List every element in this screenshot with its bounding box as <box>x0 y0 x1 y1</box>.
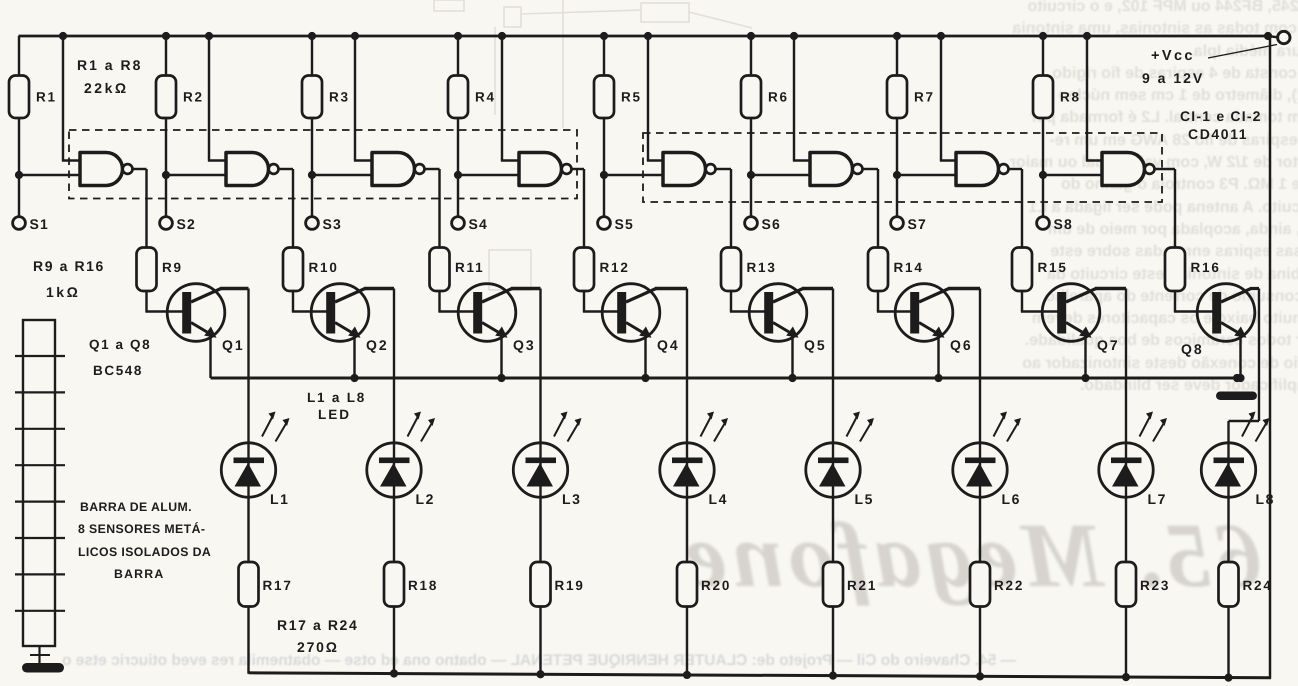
resistor R12 <box>574 248 594 292</box>
junction on top rail (gate 5 input drop) <box>644 32 652 40</box>
junction: Q6 emitter on rail <box>934 374 942 382</box>
transistor Q5 (BC548) <box>749 284 807 342</box>
LED L2 light arrows <box>408 416 419 437</box>
wire: LED L2 to R18 <box>393 497 395 562</box>
emitter of Q1 <box>191 323 207 333</box>
wire: collector to LED L3 <box>539 289 541 444</box>
svg-text:R9 a R16: R9 a R16 <box>33 258 105 274</box>
inverter bubble gate 7 <box>999 164 1009 174</box>
svg-text:CI-1 e CI-2: CI-1 e CI-2 <box>1180 108 1262 124</box>
sensor tick 6 <box>15 537 65 539</box>
collector of Q7 <box>1066 289 1096 303</box>
wire: collector to LED L6 <box>979 289 981 444</box>
junction: Q3 emitter on rail <box>497 374 505 382</box>
svg-text:BARRA DE ALUM.: BARRA DE ALUM. <box>80 500 192 514</box>
wire: R7 to node S7 <box>896 118 898 175</box>
resistor R17 <box>239 562 259 607</box>
wire: R16 to Q8 base <box>1174 291 1176 312</box>
resistor R2 <box>156 76 176 119</box>
wire: collector to LED L2 <box>393 289 395 444</box>
svg-text:S7: S7 <box>908 216 928 232</box>
wire: node to gate 7 input B <box>897 174 959 176</box>
collector of Q4 <box>626 289 656 303</box>
inverter bubble gate 3 <box>415 164 425 174</box>
transistor Q4 (BC548) <box>602 284 660 342</box>
resistor R23 <box>1116 562 1136 607</box>
wire: R2 to node S2 <box>165 118 167 175</box>
svg-text:LICOS ISOLADOS DA: LICOS ISOLADOS DA <box>78 545 211 559</box>
wire: R10 to Q2 base <box>292 291 294 312</box>
resistor R18 <box>384 562 404 607</box>
wire: LED L6 to R22 <box>979 497 981 562</box>
junction on top rail (gate 1 input drop) <box>59 32 67 40</box>
IC outline CI-2 (dashed box, gates 5-8) <box>643 133 1162 202</box>
NAND gate U4 (CD4011) <box>519 153 562 186</box>
wire: rail drop to gate 7 input A <box>940 36 942 161</box>
collector of Q1 <box>191 289 221 303</box>
junction on top rail at R2 <box>162 32 170 40</box>
junction: bottom rail at R19 <box>536 670 544 678</box>
wire: node to gate 6 input B <box>751 174 813 176</box>
wire: node to gate 3 input B <box>312 174 375 176</box>
LED L4 <box>660 443 714 497</box>
wire: collector to LED L1 <box>247 289 249 444</box>
wire: rail to R8 <box>1042 36 1044 76</box>
resistor R13 <box>721 248 741 292</box>
svg-text:L1 a L8: L1 a L8 <box>307 390 366 405</box>
svg-text:R6: R6 <box>768 90 789 105</box>
transistor Q2 (BC548) <box>311 284 369 342</box>
svg-text:S6: S6 <box>762 216 782 232</box>
svg-text:270Ω: 270Ω <box>297 639 339 655</box>
svg-text:L5: L5 <box>855 491 875 507</box>
wire: R22 to bottom rail <box>979 607 981 678</box>
svg-text:R18: R18 <box>408 578 438 593</box>
transistor Q1 (BC548) <box>167 284 225 342</box>
wire: gate 6 output to R14 <box>863 168 879 170</box>
inverter bubble gate 2 <box>269 164 279 174</box>
svg-text:CD4011: CD4011 <box>1188 126 1248 142</box>
wire: R1 to node S1 <box>18 118 20 175</box>
junction on top rail (gate 7 input drop) <box>937 32 945 40</box>
emitter of Q8 <box>1221 323 1237 333</box>
wire: rail to R2 <box>165 36 167 76</box>
inverter bubble gate 8 <box>1145 164 1155 174</box>
wire: LED L4 to R20 <box>686 497 688 562</box>
LED L2 <box>367 443 421 497</box>
resistor R20 <box>677 562 697 607</box>
wire: node to gate 4 input B <box>458 174 522 176</box>
wire: gate 8 output to R16 <box>1155 168 1176 170</box>
junction on top rail at R8 <box>1039 32 1047 40</box>
NAND gate U2 (CD4011) <box>226 153 269 186</box>
resistor R4 <box>448 76 468 119</box>
svg-text:R21: R21 <box>847 578 877 593</box>
resistor R6 <box>741 76 761 119</box>
wire: node to gate 5 input B <box>604 174 666 176</box>
NAND gate U7 (CD4011) <box>956 153 999 186</box>
junction on top rail at R7 <box>893 32 901 40</box>
junction on top rail at R6 <box>747 32 755 40</box>
junction on top rail (gate 2 input drop) <box>205 32 213 40</box>
wire: emitter to rail <box>1084 335 1086 379</box>
wire: node to switch S7 <box>896 175 898 217</box>
wire: emitter to rail <box>937 335 939 379</box>
sensor tick 4 <box>15 464 65 466</box>
svg-text:R8: R8 <box>1060 90 1081 105</box>
LED L1 <box>221 443 275 497</box>
svg-text:L8: L8 <box>1256 491 1276 507</box>
svg-text:L3: L3 <box>562 491 582 507</box>
resistor R5 <box>594 76 614 119</box>
svg-text:R2: R2 <box>183 90 204 105</box>
svg-text:9 a 12V: 9 a 12V <box>1142 70 1204 86</box>
svg-text:+Vcc: +Vcc <box>1151 48 1195 64</box>
NAND gate U1 (CD4011) <box>80 153 123 186</box>
svg-text:S8: S8 <box>1054 216 1074 232</box>
wire: rail drop to gate 8 input A <box>1086 36 1088 161</box>
node S1 junction <box>15 171 23 179</box>
wire: node to switch S8 <box>1042 175 1044 217</box>
node S6 junction <box>747 171 755 179</box>
resistor R19 <box>531 562 551 607</box>
svg-text:R19: R19 <box>555 578 585 593</box>
svg-text:R11: R11 <box>455 260 484 275</box>
wire: rail to R3 <box>311 36 313 76</box>
wire: rail to R7 <box>896 36 898 76</box>
svg-text:L2: L2 <box>416 491 436 507</box>
resistor R1 <box>9 76 29 119</box>
wire: LED L5 to R21 <box>832 497 834 562</box>
sensor bar: BARRA DE ALUM. <box>23 320 55 646</box>
sensor tick 7 <box>15 573 65 575</box>
wire: LED L3 to R19 <box>539 497 541 562</box>
inverter bubble gate 5 <box>706 164 716 174</box>
junction: bottom rail at R23 <box>1122 673 1130 681</box>
junction: Q4 emitter on rail <box>641 374 649 382</box>
node S4 junction <box>454 171 462 179</box>
emitter of Q4 <box>626 323 642 333</box>
svg-text:Q4: Q4 <box>657 337 680 353</box>
switch terminal S8 <box>1037 217 1050 230</box>
node S2 junction <box>162 171 170 179</box>
wire: rail to R6 <box>750 36 752 76</box>
node S5 junction <box>600 171 608 179</box>
wire: rail to R4 <box>457 36 459 76</box>
svg-text:R1: R1 <box>36 90 57 105</box>
svg-text:R1 a R8: R1 a R8 <box>77 57 142 73</box>
wire: R20 to bottom rail <box>686 607 688 676</box>
collector of Q5 <box>773 289 803 303</box>
wire: collector to LED L4 <box>686 289 688 444</box>
emitter of Q2 <box>335 323 351 333</box>
transistor Q6 (BC548) <box>895 284 953 342</box>
wire: rail drop to gate 3 input A <box>354 36 356 161</box>
wire: R24 to bottom rail <box>1227 607 1229 679</box>
wire: R9 to Q1 base <box>145 291 147 312</box>
emitter of Q6 <box>919 323 935 333</box>
resistor R22 <box>970 562 990 607</box>
resistor R3 <box>302 76 322 119</box>
junction on top rail (gate 3 input drop) <box>351 32 359 40</box>
wire: collector of Q8 down and jog to LED L8 <box>1258 289 1260 422</box>
wire: rail to R1 <box>18 36 20 76</box>
svg-text:R13: R13 <box>747 260 777 275</box>
sensor tick 1 <box>15 355 65 357</box>
junction on top rail at R3 <box>308 32 316 40</box>
wire: emitter to rail <box>209 335 211 379</box>
svg-text:R16: R16 <box>1191 260 1221 275</box>
junction: bottom rail at R22 <box>976 672 984 680</box>
wire: node to gate 8 input B <box>1043 174 1105 176</box>
wire: LED L8 to R24 <box>1227 497 1229 562</box>
resistor R15 <box>1012 248 1032 292</box>
wire: rail drop to gate 5 input A <box>647 36 649 161</box>
transistor Q3 (BC548) <box>458 284 516 342</box>
LED L8 light arrows <box>1242 416 1253 437</box>
wire: rail to R5 <box>603 36 605 76</box>
svg-text:R17 a R24: R17 a R24 <box>277 617 358 633</box>
svg-text:R12: R12 <box>600 260 630 275</box>
svg-text:L4: L4 <box>709 491 729 507</box>
svg-text:L7: L7 <box>1148 491 1168 507</box>
wire: gate 5 output to R13 <box>716 168 732 170</box>
wire: bottom rail <box>249 673 1272 678</box>
wire: rail drop to gate 1 input A <box>62 36 64 161</box>
inverter bubble gate 4 <box>562 164 572 174</box>
NAND gate U3 (CD4011) <box>372 153 415 186</box>
junction on top rail at R4 <box>454 32 462 40</box>
transistor Q8 (BC548) <box>1197 284 1255 342</box>
collector of Q8 <box>1221 289 1251 303</box>
junction: Q2 emitter on rail <box>350 374 358 382</box>
wire: R15 to Q7 base <box>1021 291 1023 312</box>
svg-text:R3: R3 <box>329 90 350 105</box>
sensor tick 8 <box>15 610 65 612</box>
switch terminal S5 <box>598 217 611 230</box>
resistor R16 <box>1165 248 1185 292</box>
wire: R18 to bottom rail <box>393 607 395 675</box>
svg-text:R10: R10 <box>309 260 339 275</box>
ground blob <box>22 663 64 673</box>
node: top-rail right junction <box>1264 32 1272 40</box>
svg-text:L1: L1 <box>270 491 290 507</box>
wire: collector to LED L5 <box>832 289 834 444</box>
resistor R8 <box>1033 76 1053 119</box>
wire: node to switch S4 <box>457 175 459 217</box>
svg-text:R4: R4 <box>475 90 496 105</box>
NAND gate U6 (CD4011) <box>810 153 853 186</box>
wire: LED L1 to R17 <box>247 497 249 562</box>
wire: stub to +Vcc terminal <box>1268 36 1278 37</box>
wire: emitter to rail <box>644 335 646 379</box>
LED L5 <box>806 443 860 497</box>
LED L7 light arrows <box>1140 416 1151 437</box>
svg-text:BARRA: BARRA <box>114 567 164 581</box>
wire: +Vcc top rail <box>19 35 1269 38</box>
resistor R7 <box>887 76 907 119</box>
wire: node to switch S5 <box>603 175 605 217</box>
LED L6 <box>953 443 1007 497</box>
wire: R3 to node S3 <box>311 118 313 175</box>
svg-text:Q1: Q1 <box>222 337 245 353</box>
svg-text:Q2: Q2 <box>366 337 389 353</box>
switch terminal S7 <box>891 217 904 230</box>
LED L3 <box>513 443 567 497</box>
junction: Q8 emitter on rail <box>1236 374 1244 382</box>
inverter bubble gate 1 <box>123 164 133 174</box>
svg-text:8 SENSORES METÁ-: 8 SENSORES METÁ- <box>78 522 205 536</box>
wire: node to switch S2 <box>165 175 167 217</box>
wire: gate 1 output to R9 <box>133 168 147 170</box>
wire: R14 to Q6 base <box>877 291 879 312</box>
wire: R8 to node S8 <box>1042 118 1044 175</box>
wire: gate 2 output to R10 <box>279 168 294 170</box>
wire: R12 to Q4 base <box>583 291 585 312</box>
junction: bottom rail at R21 <box>829 672 837 680</box>
svg-text:S1: S1 <box>30 216 50 232</box>
svg-text:R17: R17 <box>263 578 293 593</box>
wire: R5 to node S5 <box>603 118 605 175</box>
svg-text:S5: S5 <box>615 216 635 232</box>
wire: node to switch S6 <box>750 175 752 217</box>
bar: solder blob below Q8 emitter node <box>1216 392 1257 401</box>
switch terminal S6 <box>745 217 758 230</box>
wire: R23 to bottom rail <box>1125 607 1127 679</box>
wire: R21 to bottom rail <box>832 607 834 677</box>
wire: gate 7 output to R15 <box>1009 168 1023 170</box>
svg-text:Q1 a Q8: Q1 a Q8 <box>89 337 151 352</box>
wire: node to gate 2 input B <box>166 174 229 176</box>
junction: bottom rail at R18 <box>390 669 398 677</box>
junction: Q7 emitter on rail <box>1081 374 1089 382</box>
svg-text:R5: R5 <box>621 90 642 105</box>
sensor tick 3 <box>15 428 65 430</box>
LED L3 light arrows <box>554 416 565 437</box>
junction on top rail (gate 4 input drop) <box>498 32 506 40</box>
transistor Q7 (BC548) <box>1042 284 1100 342</box>
wire: R4 to node S4 <box>457 118 459 175</box>
svg-text:BC548: BC548 <box>93 363 143 378</box>
wire: rail drop to gate 2 input A <box>208 36 210 161</box>
junction: bottom rail at R20 <box>683 671 691 679</box>
svg-text:R20: R20 <box>701 578 731 593</box>
svg-text:Q6: Q6 <box>950 337 973 353</box>
IC outline CI-1 (dashed box, gates 1-4) <box>69 130 577 199</box>
wire: emitter to rail <box>1239 335 1241 379</box>
svg-text:S2: S2 <box>177 216 197 232</box>
label pointer line to +Vcc <box>1208 45 1277 59</box>
LED L8 <box>1201 443 1255 497</box>
wire: R6 to node S6 <box>750 118 752 175</box>
emitter of Q5 <box>773 323 789 333</box>
wire: R17 to bottom rail <box>247 607 249 674</box>
switch terminal S4 <box>452 217 465 230</box>
junction: Q5 emitter on rail <box>788 374 796 382</box>
resistor R11 <box>430 248 450 292</box>
svg-text:R9: R9 <box>162 260 183 275</box>
wire: gate 4 output to R12 <box>572 168 585 170</box>
wire: node to switch S1 <box>18 175 20 217</box>
sensor tick 2 <box>15 391 65 393</box>
junction on top rail (gate 8 input drop) <box>1083 32 1091 40</box>
wire: emitter to rail <box>791 335 793 379</box>
svg-text:1kΩ: 1kΩ <box>46 284 80 300</box>
NAND gate U5 (CD4011) <box>663 153 706 186</box>
svg-text:S3: S3 <box>323 216 343 232</box>
wire: emitter to rail <box>353 335 355 379</box>
switch terminal S2 <box>160 217 173 230</box>
node S8 junction <box>1039 171 1047 179</box>
collector of Q3 <box>482 289 512 303</box>
resistor R14 <box>868 248 888 292</box>
junction: emitter rail end node <box>1233 374 1241 382</box>
svg-text:R7: R7 <box>914 90 935 105</box>
wire: node to gate 1 input B <box>19 174 83 176</box>
svg-text:Q5: Q5 <box>804 337 827 353</box>
LED L6 light arrows <box>994 416 1005 437</box>
svg-text:Q7: Q7 <box>1097 337 1120 353</box>
junction on top rail at R5 <box>600 32 608 40</box>
node S3 junction <box>308 171 316 179</box>
wire: R13 to Q5 base <box>730 291 732 312</box>
resistor R9 <box>137 248 157 292</box>
resistor R24 <box>1219 562 1239 607</box>
resistor R21 <box>823 562 843 607</box>
svg-text:Q8: Q8 <box>1181 341 1204 357</box>
wire: rail drop to gate 6 input A <box>793 36 795 161</box>
svg-text:R22: R22 <box>994 578 1024 593</box>
sensor tick 5 <box>15 501 65 503</box>
wire: collector to LED L7 <box>1125 289 1127 444</box>
wire: right vertical rail <box>1269 37 1272 679</box>
emitter of Q7 <box>1066 323 1082 333</box>
wire: rail drop to gate 4 input A <box>501 36 503 161</box>
collector of Q2 <box>335 289 365 303</box>
wire: emitter rail <box>211 377 1238 380</box>
wire: gate 3 output to R11 <box>425 168 440 170</box>
LED L1 light arrows <box>262 416 273 437</box>
switch terminal S1 <box>13 217 26 230</box>
emitter of Q3 <box>482 323 498 333</box>
node S7 junction <box>893 171 901 179</box>
svg-text:R14: R14 <box>894 260 924 275</box>
svg-text:L6: L6 <box>1002 491 1022 507</box>
junction on top rail (gate 6 input drop) <box>790 32 798 40</box>
svg-text:Q3: Q3 <box>513 337 536 353</box>
wire: node to switch S3 <box>311 175 313 217</box>
svg-text:LED: LED <box>318 407 351 422</box>
LED L7 <box>1099 443 1153 497</box>
wire: R19 to bottom rail <box>539 607 541 676</box>
wire: R11 to Q3 base <box>438 291 440 312</box>
switch terminal S3 <box>306 217 319 230</box>
wire: bar to ground <box>38 646 40 663</box>
svg-text:22kΩ: 22kΩ <box>84 80 129 96</box>
junction: bottom rail at R24 <box>1224 673 1232 681</box>
svg-text:R24: R24 <box>1243 578 1273 593</box>
NAND gate U8 (CD4011) <box>1102 153 1145 186</box>
resistor R10 <box>283 248 303 292</box>
svg-text:R23: R23 <box>1140 578 1170 593</box>
wire: LED L7 to R23 <box>1125 497 1127 562</box>
svg-text:R15: R15 <box>1038 260 1068 275</box>
collector of Q6 <box>919 289 949 303</box>
LED L4 light arrows <box>701 416 712 437</box>
wire: emitter to rail <box>500 335 502 379</box>
inverter bubble gate 6 <box>853 164 863 174</box>
LED L5 light arrows <box>847 416 858 437</box>
